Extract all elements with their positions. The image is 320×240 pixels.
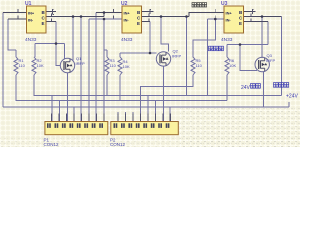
svg-text:4N33: 4N33 [221,37,233,43]
svg-text:CON12: CON12 [44,142,60,147]
svg-text:IRFP: IRFP [266,58,275,63]
svg-text:IRFP: IRFP [172,53,181,58]
svg-text:U3: U3 [221,1,228,7]
svg-text:+24V: +24V [286,94,298,100]
svg-text:U1: U1 [25,1,32,7]
svg-text:IRFP: IRFP [76,61,85,66]
svg-text:10K: 10K [37,63,44,68]
svg-text:110: 110 [110,63,117,68]
svg-text:4N33: 4N33 [121,37,133,43]
svg-text:U2: U2 [121,1,128,7]
svg-text:CON12: CON12 [110,142,126,147]
svg-text:110: 110 [196,63,203,68]
svg-text:10K: 10K [229,63,236,68]
svg-text:10K: 10K [123,64,130,69]
svg-text:24V: 24V [241,85,251,91]
svg-text:4N33: 4N33 [25,37,37,43]
svg-text:110: 110 [19,63,26,68]
